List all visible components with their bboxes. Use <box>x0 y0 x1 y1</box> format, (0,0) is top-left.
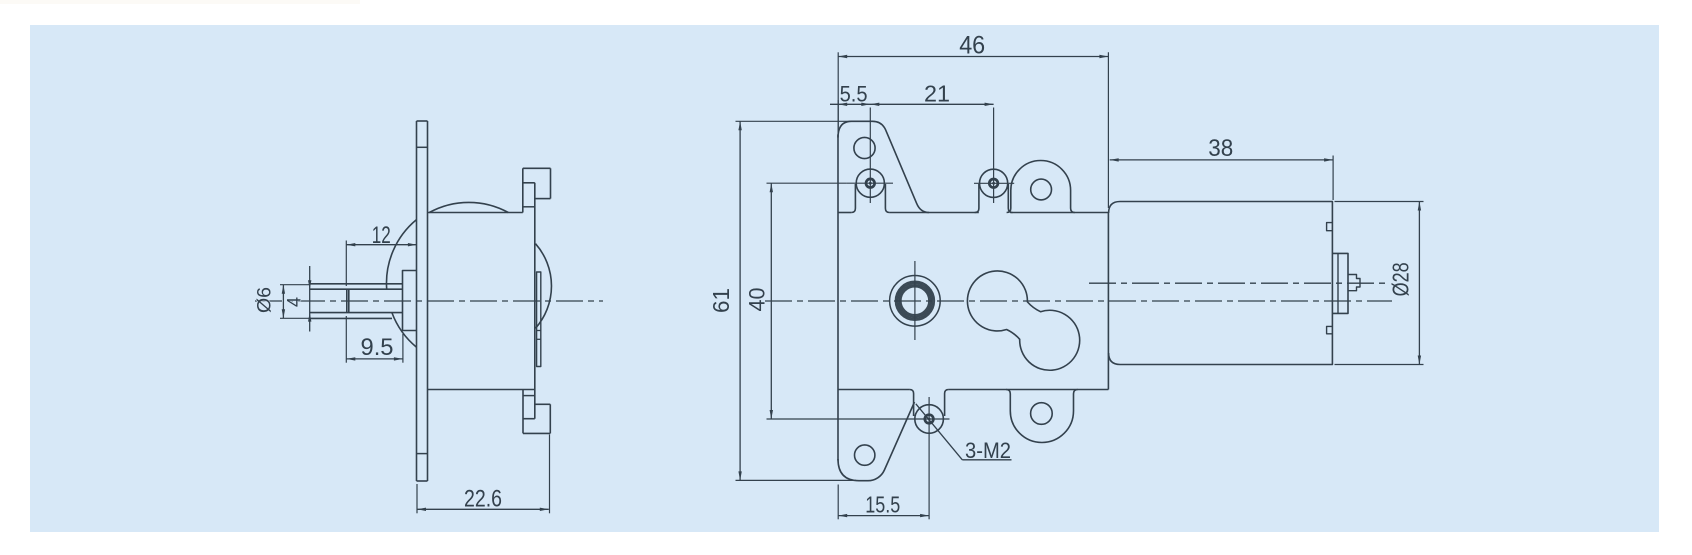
svg-text:21: 21 <box>924 81 950 107</box>
svg-text:46: 46 <box>959 32 985 60</box>
svg-text:61: 61 <box>708 288 734 313</box>
svg-text:3-M2: 3-M2 <box>965 438 1011 463</box>
svg-text:Ø6: Ø6 <box>255 287 276 313</box>
svg-text:40: 40 <box>745 288 770 312</box>
svg-text:38: 38 <box>1208 135 1233 162</box>
svg-text:12: 12 <box>372 222 391 249</box>
svg-text:Ø28: Ø28 <box>1388 262 1414 296</box>
svg-text:5.5: 5.5 <box>840 82 868 107</box>
svg-text:15.5: 15.5 <box>865 492 900 518</box>
svg-text:4: 4 <box>285 297 306 307</box>
svg-text:9.5: 9.5 <box>361 334 394 361</box>
svg-text:22.6: 22.6 <box>464 485 502 512</box>
